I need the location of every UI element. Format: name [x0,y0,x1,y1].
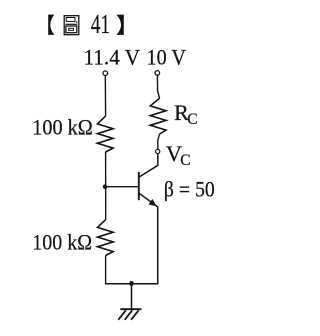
ground stem [131,284,133,310]
transistor Q1 base bar [138,172,140,200]
wire base [105,186,138,188]
ground [118,309,141,320]
svg-text:100 kΩ: 100 kΩ [32,115,93,140]
title glyph 圖 [64,16,79,35]
emitter arrow [149,200,156,207]
wire terminal to R1 [104,76,106,117]
terminal 10V [155,71,160,76]
wire R2 to rail [105,255,107,283]
wire terminal to RC [157,75,159,98]
svg-text:C: C [180,152,190,169]
resistor RC [150,98,166,134]
junction dot base node [103,184,108,189]
svg-text:100 kΩ: 100 kΩ [32,229,92,254]
svg-text:10 V: 10 V [147,45,187,70]
resistor R1 100k top [97,116,113,152]
svg-text:C: C [187,111,197,128]
bottom rail wire [105,283,158,285]
wire R1 to R2 [105,152,107,220]
collector wire [139,154,158,177]
svg-text:11.4 V: 11.4 V [84,45,141,70]
svg-text:41: 41 [91,8,110,39]
title bracket right 】 [116,15,123,35]
svg-text:β = 50: β = 50 [164,176,215,201]
resistor R2 100k bottom [98,220,114,256]
wire RC to VC node [158,134,160,149]
emitter wire [139,193,158,283]
junction dot ground node [129,281,134,286]
title bracket left 【 [48,15,54,35]
node VC [156,149,160,153]
terminal 11.4V [103,71,108,76]
